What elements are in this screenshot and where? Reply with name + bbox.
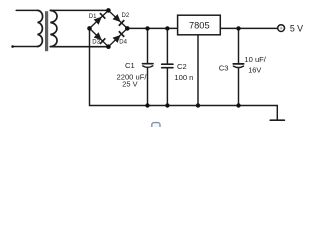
svg-text:C1: C1 — [125, 61, 135, 70]
svg-text:D2: D2 — [122, 13, 130, 19]
svg-text:25 V: 25 V — [122, 80, 137, 89]
svg-text:C3: C3 — [219, 63, 229, 72]
svg-text:C2: C2 — [177, 62, 187, 71]
svg-text:7805: 7805 — [189, 20, 210, 30]
svg-text:5 V: 5 V — [290, 23, 303, 33]
svg-text:16V: 16V — [248, 66, 261, 75]
svg-text:100 n: 100 n — [174, 73, 193, 82]
svg-text:D4: D4 — [119, 40, 127, 46]
svg-text:D3: D3 — [92, 40, 100, 46]
svg-text:10 uF/: 10 uF/ — [244, 55, 266, 64]
svg-text:D1: D1 — [89, 14, 97, 20]
